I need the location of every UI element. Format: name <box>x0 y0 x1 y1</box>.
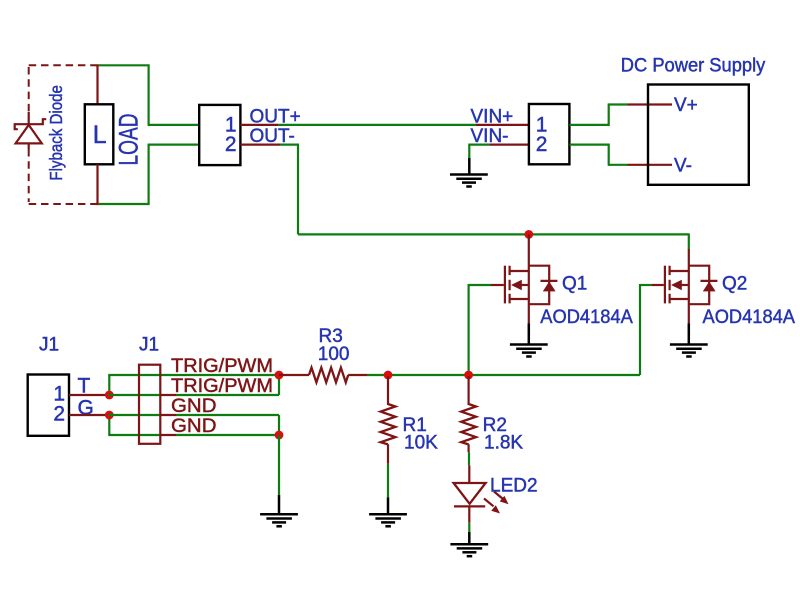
wire: OUT pin1 red stub <box>240 124 278 126</box>
wire: OUT+ to VIN+ green <box>278 124 476 126</box>
junction dot R2/gates <box>464 371 473 380</box>
wire: Q2 gate green <box>640 284 651 286</box>
wire: R1 top red lead <box>387 376 389 405</box>
ground below Q1 <box>510 324 548 357</box>
wire: R1 bottom green <box>387 464 389 498</box>
svg-text:2: 2 <box>536 133 548 156</box>
wire: GND net down green <box>278 435 280 495</box>
LED2 light arrow 2 <box>484 499 500 514</box>
wire: top green <box>99 64 199 125</box>
svg-text:V+: V+ <box>674 95 698 116</box>
svg-text:J1: J1 <box>139 335 159 356</box>
svg-text:1.8K: 1.8K <box>484 432 523 453</box>
wire: R2 top red lead <box>468 376 470 405</box>
connector VIN box <box>529 104 570 164</box>
LED2 diode symbol <box>454 483 486 506</box>
svg-text:DC Power Supply: DC Power Supply <box>621 56 766 77</box>
wire: VIN box to V- green <box>569 144 627 165</box>
wire: inductor bottom lead <box>96 164 99 205</box>
svg-text:AOD4184A: AOD4184A <box>540 307 633 328</box>
flyback dashed box <box>29 65 96 204</box>
junction dot R1 top <box>384 371 393 380</box>
junction dot row1 <box>275 371 284 380</box>
wire: row4 green right <box>176 434 279 436</box>
wire: LED cathode red lead <box>468 507 470 523</box>
wire: row4 green left <box>108 434 159 436</box>
svg-text:AOD4184A: AOD4184A <box>703 307 796 328</box>
wire: Q2 gate vertical green <box>639 284 641 375</box>
wire: gate net horizontal TRIG row <box>469 374 640 376</box>
wire: bottom green <box>99 145 199 205</box>
resistor R3 <box>309 368 348 383</box>
wire: V- red stub <box>628 164 673 166</box>
ground below header GND <box>260 495 298 526</box>
wire: drain bus green <box>298 233 689 235</box>
ground below R1 <box>369 498 407 527</box>
svg-text:10K: 10K <box>404 432 438 453</box>
connector OUT box <box>199 105 240 165</box>
junction dot row4 <box>275 431 284 440</box>
svg-text:LOAD: LOAD <box>114 114 144 166</box>
wire: row3 green right <box>176 414 279 416</box>
svg-text:Flyback Diode: Flyback Diode <box>46 85 66 181</box>
wire: Q2 drain green corner <box>688 233 690 249</box>
wire: R2 to LED green <box>468 452 470 465</box>
junction dot J1 pin1 <box>105 391 114 400</box>
wire: row4 header pin stub <box>159 434 176 436</box>
LED2 light arrow 1 <box>494 492 509 505</box>
wire: R1 bottom red lead <box>387 444 389 464</box>
ground below LED2 <box>450 532 488 556</box>
header J1 4-pin box <box>139 365 160 444</box>
wire: TRIG row green <box>367 374 469 376</box>
svg-text:T: T <box>78 374 91 397</box>
svg-text:Q1: Q1 <box>562 274 587 295</box>
wire: Q2 gate red stub <box>651 284 664 286</box>
svg-text:V-: V- <box>674 155 692 176</box>
wire: VIN box to V+ green <box>569 105 627 126</box>
svg-text:TRIG/PWM: TRIG/PWM <box>171 376 273 397</box>
wire: green vertical G to row4 <box>108 415 110 435</box>
wire: VIN- green corner <box>468 145 489 158</box>
wire: R3 right red lead <box>348 374 367 376</box>
wire: row3 to row4 green vertical <box>278 415 280 435</box>
svg-text:GND: GND <box>171 416 217 437</box>
transistor Q2 (P-MOSFET with body diode) <box>665 266 718 305</box>
wire: V+ red stub <box>628 103 673 105</box>
wire: row2 green left <box>108 394 159 396</box>
wire: Q1 gate green <box>469 284 491 286</box>
wire: J1 pin2 red lead <box>69 414 109 416</box>
wire: OUT- green down to bus <box>280 145 299 235</box>
junction dot on bus <box>524 230 533 239</box>
wire: green vertical T to row1 <box>108 375 110 395</box>
ground below Q2 <box>670 324 708 357</box>
resistor R1 <box>381 404 396 444</box>
wire: J1 pin1 red lead <box>69 394 109 396</box>
wire: LED to ground green <box>468 523 470 532</box>
inductor L box <box>85 104 114 164</box>
wire: Q2 drain red <box>688 249 690 324</box>
wire: row1 green <box>108 374 279 376</box>
wire: VIN- red stub <box>489 144 529 146</box>
wire: LED anode red lead <box>468 465 470 482</box>
wire: row2 header pin stub <box>159 394 176 396</box>
svg-text:GND: GND <box>171 396 217 417</box>
transistor Q1 (P-MOSFET with body diode) <box>505 266 558 305</box>
svg-text:TRIG/PWM: TRIG/PWM <box>171 356 273 377</box>
wire: row2 to row1 green vertical <box>278 375 280 395</box>
ground below VIN- <box>450 158 488 187</box>
svg-text:L: L <box>93 121 107 149</box>
diode D flyback (schottky) <box>15 112 47 149</box>
svg-text:100: 100 <box>318 344 350 365</box>
svg-text:VIN+: VIN+ <box>471 106 514 127</box>
svg-text:2: 2 <box>53 403 65 426</box>
resistor R2 <box>461 404 476 444</box>
connector J1 box <box>28 375 69 436</box>
wire: row2 green right <box>176 394 279 396</box>
junction dot J1 pin2 <box>105 411 114 420</box>
wire: VIN+ red stub <box>476 124 529 126</box>
wire: row3 green left <box>108 414 159 416</box>
wire: R3 left red lead <box>279 374 309 376</box>
wire: Q1 drain red <box>528 234 530 323</box>
wire: inductor top lead <box>96 64 99 104</box>
wire: row3 header pin stub <box>159 414 176 416</box>
svg-text:J1: J1 <box>39 335 59 356</box>
svg-text:LED2: LED2 <box>490 476 538 497</box>
wire: OUT pin2 red stub <box>240 144 280 146</box>
wire: gate net vertical to TRIG row <box>468 284 470 375</box>
svg-text:Q2: Q2 <box>722 274 747 295</box>
DC power supply box <box>648 85 749 185</box>
svg-text:2: 2 <box>225 133 237 156</box>
wire: Q1 gate red stub <box>491 284 504 286</box>
wire: R2 bottom red lead <box>468 444 470 452</box>
